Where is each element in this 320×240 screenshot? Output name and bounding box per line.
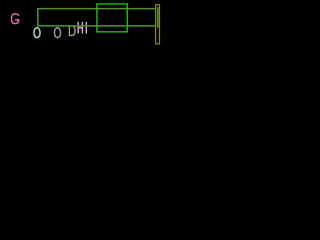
wire: bottom horizontal net from left corner to connector [37,25,155,27]
background [0,0,200,45]
label D (pin name, olive) [69,26,75,36]
label 0 (pin number, teal) [34,28,40,38]
wire: top horizontal net from left corner to connector [37,8,155,10]
wire: vertical net stub inside connector [157,7,159,28]
wire: left vertical net segment [37,8,39,27]
label 0 (pin number, gray) [54,28,60,38]
connector J1: tall body rectangle [156,5,160,44]
label H (net name, light pink) [78,23,82,33]
label I (net name, light pink) [85,23,87,34]
component U1: instance body box [97,4,127,32]
label G (net name, pink) [12,14,19,24]
